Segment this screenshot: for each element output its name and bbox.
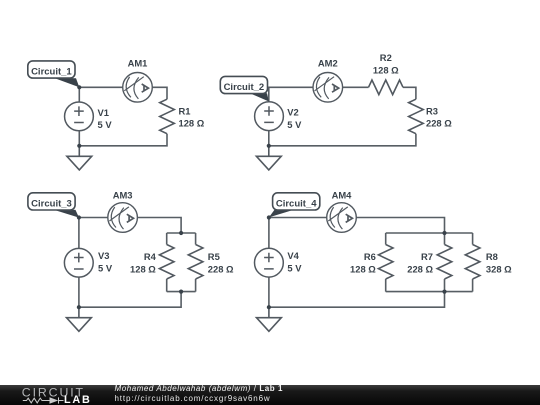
svg-text:R6: R6	[364, 251, 376, 262]
svg-text:Circuit_2: Circuit_2	[224, 82, 265, 93]
svg-text:V4: V4	[287, 250, 299, 261]
svg-text:AM4: AM4	[332, 189, 353, 200]
svg-text:128 Ω: 128 Ω	[130, 263, 156, 274]
svg-text:128 Ω: 128 Ω	[179, 118, 205, 129]
svg-text:V3: V3	[98, 250, 109, 261]
svg-text:V1: V1	[98, 107, 109, 118]
svg-text:R5: R5	[208, 251, 220, 262]
svg-text:5 V: 5 V	[98, 119, 113, 130]
svg-text:R8: R8	[486, 251, 498, 262]
svg-text:R1: R1	[179, 106, 191, 117]
svg-text:R3: R3	[426, 106, 438, 117]
svg-text:5 V: 5 V	[287, 119, 302, 130]
svg-text:V2: V2	[287, 107, 298, 118]
svg-text:328 Ω: 328 Ω	[486, 263, 512, 274]
svg-text:5 V: 5 V	[287, 263, 302, 274]
svg-text:R2: R2	[380, 52, 392, 63]
svg-text:Circuit_1: Circuit_1	[31, 67, 72, 78]
svg-text:Circuit_4: Circuit_4	[276, 199, 317, 210]
svg-text:228 Ω: 228 Ω	[208, 263, 234, 274]
svg-text:R7: R7	[421, 251, 433, 262]
svg-text:AM2: AM2	[318, 57, 338, 68]
svg-text:128 Ω: 128 Ω	[350, 263, 376, 274]
svg-text:Circuit_3: Circuit_3	[31, 199, 72, 210]
svg-text:AM1: AM1	[128, 57, 148, 68]
svg-text:5 V: 5 V	[98, 263, 113, 274]
svg-text:AM3: AM3	[113, 189, 133, 200]
svg-text:128 Ω: 128 Ω	[373, 64, 399, 75]
svg-text:R4: R4	[144, 251, 157, 262]
svg-text:228 Ω: 228 Ω	[407, 263, 433, 274]
svg-text:228 Ω: 228 Ω	[426, 118, 452, 129]
